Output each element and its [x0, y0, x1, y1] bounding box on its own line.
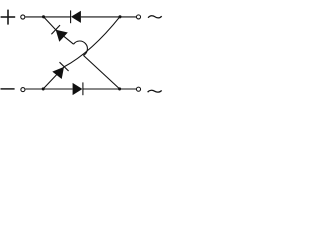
- crossover hop (wire A jumps over wire B): [74, 41, 88, 55]
- terminal T4 (AC input, open circle): [136, 87, 140, 91]
- minus terminal label: [1, 88, 15, 90]
- node A (top-left junction dot): [42, 15, 45, 18]
- terminal T3 (- input, open circle): [21, 88, 25, 92]
- wire node C to diode D2: [43, 88, 72, 90]
- node D (bottom-right junction dot): [118, 87, 121, 90]
- wire node A to diode D1: [44, 16, 71, 18]
- AC tilde label bottom: [148, 90, 162, 92]
- node C (bottom-left junction dot): [42, 87, 45, 90]
- wire crossover hop to node D: [83, 55, 119, 88]
- diode D2 (bottom, cathode bar right): [73, 82, 83, 95]
- terminal T2 (AC input, open circle): [136, 15, 140, 19]
- diode D3 (on diagonal A-D, cathode bar up-left): [51, 25, 67, 42]
- AC tilde label top: [148, 16, 162, 18]
- wire T1 to node A: [25, 16, 43, 18]
- wire D1 to node B: [81, 16, 120, 18]
- plus terminal label: [1, 10, 16, 25]
- node B (top-right junction dot): [118, 15, 121, 18]
- wire diagonal node C to node B: [43, 17, 120, 89]
- diode D4 (on diagonal C-B, cathode bar up-right): [52, 62, 68, 79]
- wire D2 to node D: [83, 88, 120, 90]
- diode D1 (top, cathode bar left): [71, 10, 81, 23]
- wire node B to terminal T2: [120, 16, 136, 18]
- wire node D to terminal T4: [120, 88, 136, 90]
- terminal T1 (+ input, open circle): [21, 15, 25, 19]
- wire T3 to node C: [25, 88, 43, 90]
- wire diagonal node A to crossover hop: [44, 17, 74, 44]
